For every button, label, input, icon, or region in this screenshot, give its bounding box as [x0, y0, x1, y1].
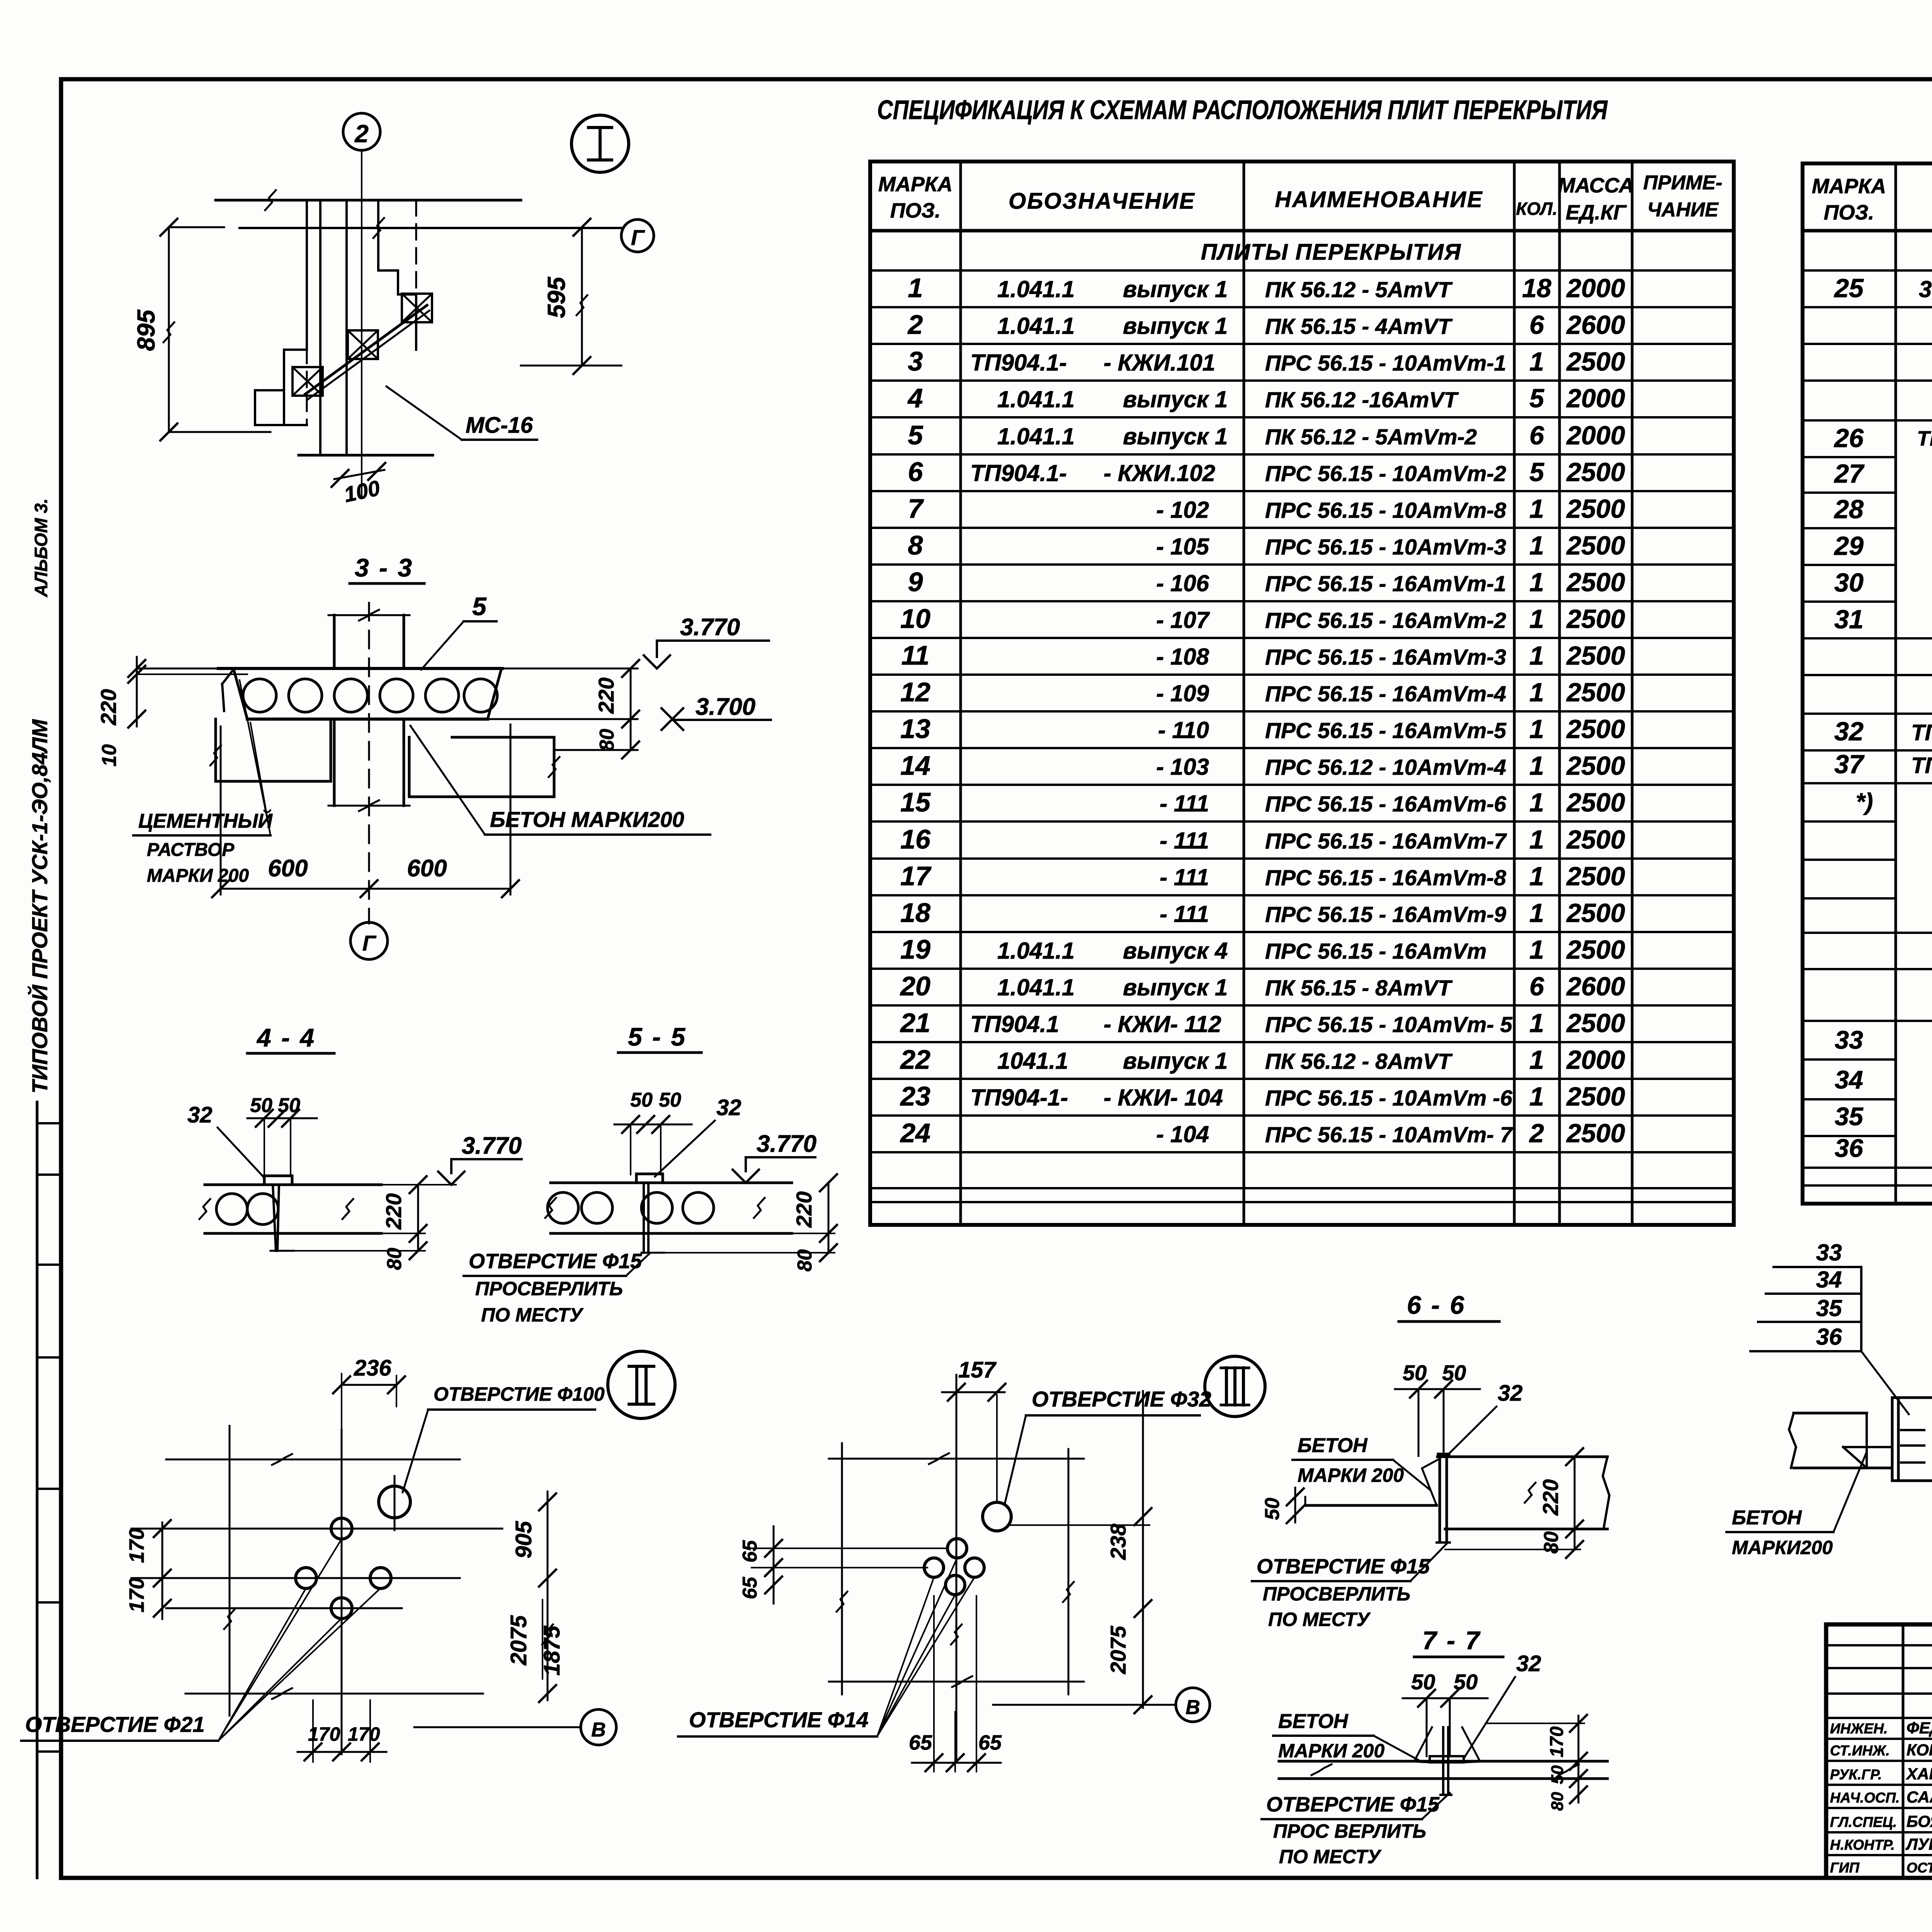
- svg-text:2500: 2500: [1566, 457, 1625, 487]
- svg-text:5: 5: [1529, 384, 1544, 413]
- svg-text:32: 32: [187, 1102, 213, 1128]
- svg-text:ПРОСВЕРЛИТЬ: ПРОСВЕРЛИТЬ: [1263, 1583, 1410, 1605]
- svg-text:БЕТОН: БЕТОН: [1278, 1710, 1349, 1733]
- svg-text:2: 2: [1529, 1119, 1544, 1148]
- svg-text:Г: Г: [631, 225, 645, 250]
- svg-text:3: 3: [908, 346, 923, 376]
- svg-text:ПРС 56.15 - 10АтVт-2: ПРС 56.15 - 10АтVт-2: [1265, 461, 1506, 486]
- svg-text:МАРКА: МАРКА: [878, 173, 952, 196]
- svg-text:1041.1: 1041.1: [997, 1048, 1068, 1074]
- svg-text:9: 9: [908, 567, 923, 597]
- svg-text:ПРС 56.15 - 16АтVт-3: ПРС 56.15 - 16АтVт-3: [1265, 645, 1506, 670]
- svg-text:ПРС 56.15 - 16АтVт-1: ПРС 56.15 - 16АтVт-1: [1265, 571, 1506, 596]
- svg-text:1: 1: [1529, 1082, 1544, 1111]
- svg-text:ОТВЕРСТИЕ Ф100: ОТВЕРСТИЕ Ф100: [434, 1383, 605, 1405]
- svg-text:28: 28: [1833, 495, 1864, 524]
- svg-text:ПО МЕСТУ: ПО МЕСТУ: [481, 1304, 584, 1326]
- svg-text:2500: 2500: [1566, 714, 1625, 744]
- svg-text:СПЕЦИФИКАЦИЯ К СХЕМАМ РАСПОЛ: СПЕЦИФИКАЦИЯ К СХЕМАМ РАСПОЛОЖЕНИЯ ПЛИТ …: [877, 95, 1608, 125]
- svg-text:18: 18: [1522, 274, 1551, 303]
- svg-text:- 106: - 106: [1156, 570, 1209, 596]
- svg-text:17: 17: [900, 861, 932, 891]
- svg-text:8: 8: [908, 530, 923, 560]
- svg-text:2500: 2500: [1566, 862, 1625, 891]
- svg-text:2500: 2500: [1566, 604, 1625, 634]
- svg-text:15: 15: [900, 787, 931, 817]
- svg-text:- 107: - 107: [1156, 607, 1210, 633]
- svg-text:НАИМЕНОВАНИЕ: НАИМЕНОВАНИЕ: [1275, 187, 1483, 212]
- svg-text:238: 238: [1106, 1523, 1130, 1560]
- svg-text:ПК 56.15 - 8АтVТ: ПК 56.15 - 8АтVТ: [1265, 976, 1453, 1000]
- svg-text:7: 7: [908, 493, 924, 524]
- svg-text:65: 65: [739, 1540, 761, 1563]
- svg-text:895: 895: [132, 309, 160, 351]
- svg-text:ПРС 56.15 - 16АтVт-4: ПРС 56.15 - 16АтVт-4: [1265, 682, 1506, 706]
- svg-text:- КЖИ- 104: - КЖИ- 104: [1104, 1085, 1223, 1111]
- svg-text:ТП904.1- - КЖИ-МС1: ТП904.1- - КЖИ-МС1: [1911, 720, 1932, 745]
- svg-text:36: 36: [1835, 1134, 1864, 1162]
- svg-text:1: 1: [1529, 751, 1544, 781]
- svg-text:50: 50: [659, 1089, 681, 1111]
- svg-text:2500: 2500: [1566, 751, 1625, 781]
- svg-text:80: 80: [794, 1249, 816, 1272]
- svg-text:ПЛИТЫ ПЕРЕКРЫТИЯ: ПЛИТЫ ПЕРЕКРЫТИЯ: [1201, 240, 1461, 265]
- svg-text:1.041.1: 1.041.1: [997, 276, 1075, 302]
- svg-text:2500: 2500: [1566, 641, 1625, 670]
- svg-text:32: 32: [1516, 1651, 1541, 1676]
- svg-text:5: 5: [908, 420, 923, 450]
- svg-text:ИНЖЕН.: ИНЖЕН.: [1830, 1721, 1888, 1736]
- svg-text:ОТВЕРСТИЕ Ф15: ОТВЕРСТИЕ Ф15: [1257, 1555, 1430, 1578]
- svg-text:3.006-2: 3.006-2: [1919, 276, 1932, 302]
- svg-text:ПК 56.12 - 8АтVТ: ПК 56.12 - 8АтVТ: [1265, 1049, 1453, 1074]
- svg-text:выпуск 1: выпуск 1: [1123, 1048, 1228, 1074]
- svg-text:МАРКИ 200: МАРКИ 200: [1298, 1464, 1404, 1486]
- svg-text:- 103: - 103: [1156, 754, 1209, 780]
- svg-text:ОБОЗНАЧЕНИЕ: ОБОЗНАЧЕНИЕ: [1009, 189, 1196, 214]
- svg-text:170: 170: [125, 1528, 148, 1563]
- svg-text:выпуск 1: выпуск 1: [1123, 975, 1228, 1000]
- svg-text:2500: 2500: [1566, 1009, 1625, 1038]
- svg-text:1: 1: [1529, 825, 1544, 854]
- svg-text:МАССА: МАССА: [1558, 174, 1634, 197]
- svg-text:7 - 7: 7 - 7: [1422, 1626, 1481, 1655]
- svg-text:Н.КОНТР.: Н.КОНТР.: [1830, 1837, 1895, 1853]
- svg-text:ПРС 56.15 - 16АтVт: ПРС 56.15 - 16АтVт: [1265, 939, 1486, 964]
- svg-text:1: 1: [1529, 898, 1544, 928]
- svg-text:2500: 2500: [1566, 898, 1625, 928]
- svg-text:МАРКИ 200: МАРКИ 200: [147, 866, 249, 886]
- svg-text:905: 905: [511, 1521, 536, 1559]
- svg-text:3.770: 3.770: [462, 1133, 522, 1159]
- svg-text:50: 50: [1548, 1765, 1567, 1784]
- svg-text:МАРКА: МАРКА: [1812, 175, 1886, 198]
- svg-text:595: 595: [543, 276, 570, 318]
- svg-text:СТ.ИНЖ.: СТ.ИНЖ.: [1830, 1743, 1890, 1759]
- svg-text:ПРС 56.15 - 10АтVт- 5: ПРС 56.15 - 10АтVт- 5: [1265, 1012, 1513, 1037]
- svg-text:1: 1: [1529, 1009, 1544, 1038]
- svg-text:ПРС 56.15 - 16АтVт-5: ПРС 56.15 - 16АтVт-5: [1265, 718, 1507, 743]
- svg-text:50: 50: [630, 1089, 653, 1111]
- svg-text:14: 14: [900, 750, 930, 781]
- svg-text:- 108: - 108: [1156, 644, 1209, 670]
- svg-text:80: 80: [1548, 1792, 1567, 1811]
- svg-text:ПРС 56.15 - 16АтVт-6: ПРС 56.15 - 16АтVт-6: [1265, 792, 1506, 816]
- svg-text:3 - 3: 3 - 3: [355, 553, 413, 582]
- svg-text:35: 35: [1835, 1102, 1864, 1131]
- svg-text:32: 32: [1498, 1381, 1523, 1406]
- svg-text:ЧАНИЕ: ЧАНИЕ: [1647, 199, 1719, 221]
- svg-text:35: 35: [1816, 1295, 1842, 1321]
- svg-text:16: 16: [900, 824, 931, 854]
- svg-text:220: 220: [381, 1193, 406, 1230]
- svg-text:2600: 2600: [1566, 310, 1625, 340]
- svg-text:- 111: - 111: [1160, 828, 1209, 854]
- svg-text:3.700: 3.700: [696, 694, 755, 720]
- svg-text:1.041.1: 1.041.1: [997, 386, 1075, 412]
- svg-text:ПОЗ.: ПОЗ.: [890, 199, 941, 222]
- svg-text:ГЛ.СПЕЦ.: ГЛ.СПЕЦ.: [1830, 1814, 1897, 1830]
- svg-text:6: 6: [1529, 310, 1544, 340]
- svg-text:ЛУЦЕНКО: ЛУЦЕНКО: [1905, 1835, 1932, 1853]
- svg-text:ПРС 56.15 - 10АтVт-8: ПРС 56.15 - 10АтVт-8: [1265, 498, 1506, 523]
- svg-text:10: 10: [98, 744, 121, 767]
- svg-text:170: 170: [125, 1578, 148, 1612]
- svg-text:2000: 2000: [1566, 384, 1625, 413]
- svg-text:2500: 2500: [1566, 825, 1625, 854]
- svg-text:МАРКИ200: МАРКИ200: [1732, 1537, 1833, 1558]
- svg-text:КОРОТЕНКО: КОРОТЕНКО: [1906, 1741, 1932, 1759]
- svg-text:БОЯРЧЕНКО: БОЯРЧЕНКО: [1906, 1812, 1932, 1830]
- svg-text:ПРИМЕ-: ПРИМЕ-: [1643, 172, 1723, 194]
- svg-text:- 111: - 111: [1160, 864, 1209, 890]
- svg-text:ОТВЕРСТИЕ Ф15: ОТВЕРСТИЕ Ф15: [1266, 1793, 1440, 1816]
- svg-text:32: 32: [1834, 717, 1864, 746]
- svg-text:18: 18: [900, 898, 930, 928]
- svg-text:БЕТОН МАРКИ200: БЕТОН МАРКИ200: [490, 807, 684, 832]
- svg-text:2500: 2500: [1566, 935, 1625, 964]
- svg-text:2000: 2000: [1566, 421, 1625, 450]
- svg-text:ПО МЕСТУ: ПО МЕСТУ: [1279, 1846, 1382, 1867]
- svg-text:25: 25: [1833, 274, 1864, 303]
- svg-text:11: 11: [901, 640, 930, 670]
- svg-text:КОЛ.: КОЛ.: [1516, 199, 1557, 219]
- svg-text:2500: 2500: [1566, 568, 1625, 597]
- svg-text:50: 50: [1411, 1670, 1435, 1694]
- svg-text:БЕТОН: БЕТОН: [1298, 1434, 1368, 1457]
- svg-text:ТП904.1- - КЖИ- МС19: ТП904.1- - КЖИ- МС19: [1911, 753, 1932, 778]
- svg-text:4 - 4: 4 - 4: [256, 1023, 316, 1052]
- svg-text:РУК.ГР.: РУК.ГР.: [1830, 1767, 1882, 1782]
- svg-text:МС-16: МС-16: [466, 413, 533, 438]
- svg-text:1.041.1: 1.041.1: [997, 975, 1075, 1000]
- svg-text:ПОЗ.: ПОЗ.: [1824, 201, 1874, 224]
- svg-text:3.770: 3.770: [757, 1131, 816, 1157]
- svg-text:600: 600: [407, 855, 447, 882]
- svg-text:выпуск 1: выпуск 1: [1123, 386, 1228, 412]
- svg-text:ТП 904.1-: ТП 904.1-: [1917, 427, 1932, 450]
- svg-text:1: 1: [1529, 494, 1544, 524]
- svg-text:1: 1: [1529, 604, 1544, 634]
- svg-text:ПРС 56.15 - 10АтVт- 7: ПРС 56.15 - 10АтVт- 7: [1265, 1122, 1513, 1147]
- svg-text:ТП904-1-: ТП904-1-: [970, 1085, 1068, 1111]
- svg-text:ОСТАШЕВСКИЙ: ОСТАШЕВСКИЙ: [1906, 1859, 1932, 1876]
- svg-text:50: 50: [1261, 1498, 1284, 1520]
- svg-text:29: 29: [1833, 531, 1864, 561]
- svg-text:6: 6: [1529, 972, 1544, 1001]
- svg-text:СААКЬЯНЦ: СААКЬЯНЦ: [1906, 1788, 1932, 1806]
- svg-text:4: 4: [907, 383, 923, 413]
- svg-text:Г: Г: [362, 931, 377, 955]
- svg-text:22: 22: [900, 1044, 930, 1075]
- svg-text:157: 157: [958, 1357, 997, 1383]
- svg-text:2: 2: [354, 120, 369, 148]
- svg-text:ЕД.КГ: ЕД.КГ: [1566, 201, 1627, 224]
- svg-text:65: 65: [909, 1731, 932, 1754]
- svg-text:1: 1: [1529, 568, 1544, 597]
- svg-text:13: 13: [900, 714, 930, 744]
- svg-text:ТП904.1-: ТП904.1-: [970, 350, 1067, 376]
- svg-text:БЕТОН: БЕТОН: [1732, 1507, 1802, 1529]
- svg-text:ФЕДОТОВА: ФЕДОТОВА: [1906, 1719, 1932, 1737]
- svg-text:1.041.1: 1.041.1: [997, 938, 1075, 964]
- svg-text:2500: 2500: [1566, 678, 1625, 707]
- svg-text:ТИПОВОЙ ПРОЕКТ УСК-1-ЭО,84ЛМ: ТИПОВОЙ ПРОЕКТ УСК-1-ЭО,84ЛМ: [27, 719, 52, 1094]
- svg-text:ЦЕМЕНТНЫЙ: ЦЕМЕНТНЫЙ: [138, 809, 273, 832]
- svg-text:ОТВЕРСТИЕ Ф14: ОТВЕРСТИЕ Ф14: [689, 1708, 869, 1732]
- svg-text:80: 80: [596, 729, 618, 751]
- svg-text:32: 32: [716, 1095, 742, 1120]
- svg-text:31: 31: [1834, 605, 1864, 634]
- svg-text:ПРОС ВЕРЛИТЬ: ПРОС ВЕРЛИТЬ: [1273, 1820, 1426, 1842]
- svg-text:1: 1: [1529, 862, 1544, 891]
- svg-text:- 111: - 111: [1160, 901, 1209, 927]
- svg-text:3.770: 3.770: [680, 614, 740, 641]
- svg-text:- 102: - 102: [1156, 497, 1209, 523]
- svg-text:2500: 2500: [1566, 531, 1625, 560]
- svg-text:2075: 2075: [506, 1615, 531, 1666]
- svg-text:6: 6: [1529, 421, 1544, 450]
- svg-text:5: 5: [1529, 457, 1544, 487]
- svg-text:выпуск 1: выпуск 1: [1123, 313, 1228, 339]
- svg-text:80: 80: [383, 1248, 406, 1270]
- svg-text:ПО МЕСТУ: ПО МЕСТУ: [1268, 1609, 1371, 1630]
- svg-text:2: 2: [907, 310, 923, 340]
- svg-text:ПРС 56.15 - 10АтVт-1: ПРС 56.15 - 10АтVт-1: [1265, 351, 1506, 376]
- svg-text:В: В: [591, 1719, 606, 1741]
- svg-text:выпуск 1: выпуск 1: [1123, 276, 1228, 302]
- svg-text:34: 34: [1816, 1267, 1842, 1293]
- svg-text:- 111: - 111: [1160, 791, 1209, 816]
- svg-text:- 110: - 110: [1158, 717, 1209, 743]
- svg-text:5 - 5: 5 - 5: [628, 1022, 687, 1051]
- svg-text:1.041.1: 1.041.1: [997, 313, 1075, 339]
- svg-text:2600: 2600: [1566, 972, 1625, 1001]
- svg-text:2500: 2500: [1566, 788, 1625, 817]
- svg-text:В: В: [1185, 1696, 1200, 1719]
- svg-text:ПРОСВЕРЛИТЬ: ПРОСВЕРЛИТЬ: [475, 1278, 623, 1299]
- svg-text:50: 50: [1442, 1361, 1466, 1385]
- svg-text:220: 220: [1538, 1479, 1563, 1515]
- svg-text:6: 6: [908, 457, 923, 487]
- svg-text:80: 80: [1540, 1531, 1563, 1554]
- svg-text:220: 220: [792, 1191, 816, 1228]
- svg-text:- КЖИ.101: - КЖИ.101: [1104, 350, 1215, 376]
- svg-text:- 104: - 104: [1156, 1121, 1209, 1147]
- svg-text:- КЖИ.102: - КЖИ.102: [1104, 460, 1215, 486]
- svg-text:600: 600: [268, 855, 308, 882]
- svg-text:50: 50: [1403, 1361, 1427, 1385]
- svg-text:34: 34: [1835, 1065, 1863, 1094]
- svg-text:ПРС 56.12 - 10АтVт-4: ПРС 56.12 - 10АтVт-4: [1265, 755, 1506, 780]
- svg-text:10: 10: [900, 604, 930, 634]
- svg-text:2075: 2075: [1106, 1626, 1130, 1674]
- svg-text:2500: 2500: [1566, 347, 1625, 376]
- svg-text:ХАНИН: ХАНИН: [1906, 1765, 1932, 1783]
- svg-text:ТП904.1-: ТП904.1-: [970, 460, 1067, 486]
- svg-text:ГИП: ГИП: [1830, 1860, 1860, 1876]
- svg-text:- КЖИ- 112: - КЖИ- 112: [1104, 1011, 1221, 1037]
- svg-text:220: 220: [96, 689, 121, 725]
- svg-text:2500: 2500: [1566, 494, 1625, 524]
- svg-text:170: 170: [1547, 1726, 1567, 1757]
- svg-text:12: 12: [900, 677, 930, 707]
- svg-text:*): *): [1856, 789, 1873, 815]
- svg-text:19: 19: [900, 934, 930, 964]
- svg-text:2500: 2500: [1566, 1119, 1625, 1148]
- svg-text:МАРКИ 200: МАРКИ 200: [1278, 1740, 1384, 1762]
- svg-text:170: 170: [348, 1723, 380, 1745]
- svg-text:21: 21: [900, 1008, 930, 1038]
- svg-text:ОТВЕРСТИЕ Ф21: ОТВЕРСТИЕ Ф21: [25, 1712, 205, 1736]
- svg-text:23: 23: [900, 1081, 930, 1111]
- svg-text:5: 5: [472, 592, 487, 621]
- svg-text:37: 37: [1834, 750, 1865, 779]
- svg-text:ПРС 56.15 - 10АтVт-3: ПРС 56.15 - 10АтVт-3: [1265, 535, 1506, 560]
- svg-text:ПК 56.12 - 5АтVТ: ПК 56.12 - 5АтVТ: [1265, 277, 1453, 302]
- svg-text:ПК 56.12 - 5АтVт-2: ПК 56.12 - 5АтVт-2: [1265, 425, 1477, 449]
- svg-text:33: 33: [1816, 1240, 1842, 1265]
- svg-text:27: 27: [1833, 459, 1865, 488]
- svg-text:26: 26: [1833, 423, 1864, 453]
- svg-text:1: 1: [1529, 641, 1544, 670]
- svg-text:36: 36: [1816, 1324, 1842, 1350]
- svg-text:1: 1: [1529, 347, 1544, 376]
- svg-text:2000: 2000: [1566, 274, 1625, 303]
- svg-text:1: 1: [1529, 1045, 1544, 1075]
- svg-text:1.041.1: 1.041.1: [997, 423, 1075, 449]
- svg-text:1: 1: [1529, 714, 1544, 744]
- svg-text:6 - 6: 6 - 6: [1407, 1291, 1466, 1319]
- svg-text:НАЧ.ОСП.: НАЧ.ОСП.: [1830, 1790, 1900, 1806]
- svg-text:30: 30: [1834, 568, 1864, 597]
- svg-text:20: 20: [900, 971, 930, 1001]
- svg-text:1: 1: [1529, 531, 1544, 560]
- svg-text:- 105: - 105: [1156, 534, 1209, 560]
- svg-text:33: 33: [1835, 1026, 1863, 1054]
- svg-text:24: 24: [900, 1118, 930, 1148]
- svg-text:ПРС 56.15 - 16АтVт-2: ПРС 56.15 - 16АтVт-2: [1265, 608, 1506, 633]
- svg-text:ПРС 56.15 - 16АтVт-9: ПРС 56.15 - 16АтVт-9: [1265, 902, 1506, 927]
- svg-text:1: 1: [908, 273, 923, 303]
- svg-text:ПРС 56.15 - 16АтVт-7: ПРС 56.15 - 16АтVт-7: [1265, 829, 1507, 854]
- svg-text:2000: 2000: [1566, 1045, 1625, 1075]
- svg-text:выпуск 1: выпуск 1: [1123, 423, 1228, 449]
- svg-text:1: 1: [1529, 678, 1544, 707]
- svg-text:1: 1: [1529, 935, 1544, 964]
- svg-text:65: 65: [739, 1577, 761, 1599]
- svg-text:ОТВЕРСТИЕ Ф15: ОТВЕРСТИЕ Ф15: [469, 1250, 642, 1273]
- svg-text:1: 1: [1529, 788, 1544, 817]
- svg-text:2500: 2500: [1566, 1082, 1625, 1111]
- svg-text:выпуск 4: выпуск 4: [1123, 938, 1228, 964]
- svg-text:ПК 56.12 -16АтVТ: ПК 56.12 -16АтVТ: [1265, 388, 1459, 412]
- svg-text:АЛЬБОМ 3.: АЛЬБОМ 3.: [31, 498, 51, 597]
- svg-text:ПРС 56.15 - 16АтVт-8: ПРС 56.15 - 16АтVт-8: [1265, 866, 1506, 890]
- svg-text:220: 220: [594, 677, 618, 714]
- svg-text:236: 236: [354, 1355, 392, 1381]
- svg-text:- 109: - 109: [1156, 680, 1209, 706]
- svg-text:ПРС 56.15 - 10АтVт -6: ПРС 56.15 - 10АтVт -6: [1265, 1086, 1512, 1111]
- svg-text:ПК 56.15 - 4АтVТ: ПК 56.15 - 4АтVТ: [1265, 314, 1453, 339]
- svg-text:65: 65: [978, 1731, 1002, 1754]
- svg-text:ОТВЕРСТИЕ Ф32: ОТВЕРСТИЕ Ф32: [1032, 1387, 1211, 1411]
- svg-text:ТП904.1: ТП904.1: [970, 1011, 1059, 1037]
